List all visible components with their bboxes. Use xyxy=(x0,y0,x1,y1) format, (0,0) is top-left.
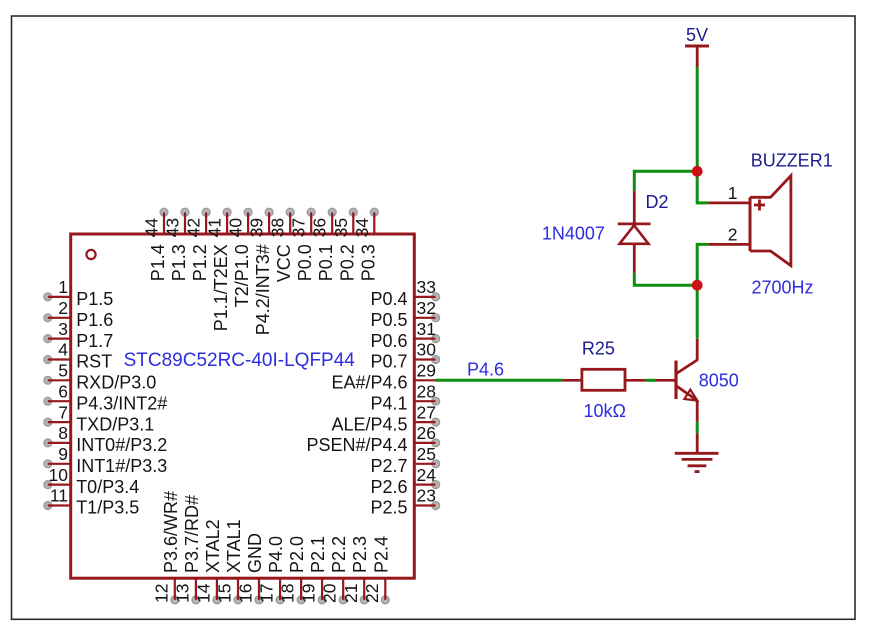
svg-text:7: 7 xyxy=(58,402,68,422)
pin 28 P4.1 xyxy=(370,381,439,413)
svg-text:P2.6: P2.6 xyxy=(370,477,407,497)
svg-text:10kΩ: 10kΩ xyxy=(584,401,626,421)
svg-text:35: 35 xyxy=(331,218,351,237)
svg-text:P1.2: P1.2 xyxy=(190,244,210,281)
svg-text:31: 31 xyxy=(417,319,436,339)
wire junction B to diode anode xyxy=(634,273,697,285)
svg-text:P0.1: P0.1 xyxy=(316,244,336,281)
pin 36 P0.1 xyxy=(310,208,337,281)
svg-text:P2.7: P2.7 xyxy=(370,456,407,476)
wire junction B down to collector xyxy=(696,285,699,339)
svg-text:P0.4: P0.4 xyxy=(370,289,407,309)
svg-text:P0.6: P0.6 xyxy=(370,331,407,351)
svg-text:P2.4: P2.4 xyxy=(371,536,391,573)
svg-text:P2.0: P2.0 xyxy=(287,536,307,573)
svg-text:14: 14 xyxy=(193,583,213,603)
wire buzzer pin 2 to junction B xyxy=(697,244,708,285)
pin 20 P2.2 xyxy=(320,536,350,604)
diode D2 1N4007 xyxy=(618,191,651,273)
svg-text:P2.3: P2.3 xyxy=(350,536,370,573)
svg-text:INT0#/P3.2: INT0#/P3.2 xyxy=(76,435,167,455)
buzzer BUZZER1 body xyxy=(750,176,791,266)
svg-text:22: 22 xyxy=(362,584,382,603)
pin 17 P4.0 xyxy=(257,536,287,604)
svg-text:13: 13 xyxy=(172,584,192,603)
junction node A xyxy=(692,166,703,177)
svg-text:2: 2 xyxy=(728,225,738,245)
pin 19 P2.1 xyxy=(299,536,329,604)
wire junction to diode cathode xyxy=(634,171,697,190)
svg-text:P1.5: P1.5 xyxy=(76,289,113,309)
pin 13 P3.7/RD# xyxy=(172,495,202,604)
svg-text:P2.5: P2.5 xyxy=(370,498,407,518)
svg-text:P0.5: P0.5 xyxy=(370,310,407,330)
pin 44 P1.4 xyxy=(142,208,169,281)
svg-text:P4.6: P4.6 xyxy=(467,360,504,380)
svg-text:20: 20 xyxy=(320,583,340,603)
pin 23 P2.5 xyxy=(370,486,439,518)
svg-text:RST: RST xyxy=(76,352,112,372)
wire emitter to ground xyxy=(696,422,699,433)
buzzer BUZZER1 pin 2 wire xyxy=(708,243,750,246)
svg-text:8: 8 xyxy=(58,423,68,443)
pin 32 P0.5 xyxy=(370,298,439,330)
resistor R25 xyxy=(562,369,645,390)
svg-text:P0.0: P0.0 xyxy=(295,244,315,281)
svg-text:23: 23 xyxy=(417,486,436,506)
svg-text:VCC: VCC xyxy=(274,244,294,282)
svg-text:30: 30 xyxy=(417,340,437,360)
pin 26 PSEN#/P4.4 xyxy=(306,423,439,455)
svg-text:10: 10 xyxy=(49,465,69,485)
svg-text:6: 6 xyxy=(58,381,68,401)
power symbol 5V xyxy=(685,46,709,67)
svg-text:T2/P1.0: T2/P1.0 xyxy=(232,244,252,307)
svg-text:P3.6/WR#: P3.6/WR# xyxy=(161,491,181,573)
pin 43 P1.3 xyxy=(163,208,190,281)
svg-text:P1.3: P1.3 xyxy=(169,244,189,281)
svg-text:R25: R25 xyxy=(582,338,615,358)
svg-text:P4.3/INT2#: P4.3/INT2# xyxy=(76,393,167,413)
svg-text:2: 2 xyxy=(58,298,68,318)
pin 2 P1.6 xyxy=(44,298,113,330)
pin 24 P2.6 xyxy=(370,465,439,497)
pin 31 P0.6 xyxy=(370,319,439,351)
pin 29 EA#/P4.6 xyxy=(331,361,436,393)
pin 35 P0.2 xyxy=(331,208,358,281)
svg-text:21: 21 xyxy=(341,584,361,603)
pin 6 P4.3/INT2# xyxy=(44,381,167,413)
junction node B xyxy=(692,280,703,291)
svg-text:37: 37 xyxy=(289,218,309,237)
pin 33 P0.4 xyxy=(370,277,439,309)
svg-text:P4.2/INT3#: P4.2/INT3# xyxy=(253,244,273,335)
svg-text:D2: D2 xyxy=(646,192,669,212)
svg-text:XTAL1: XTAL1 xyxy=(224,519,244,573)
pin 25 P2.7 xyxy=(370,444,439,476)
svg-text:40: 40 xyxy=(226,218,246,238)
svg-text:16: 16 xyxy=(236,584,256,603)
pin 11 T1/P3.5 xyxy=(44,486,139,518)
pin 12 P3.6/WR# xyxy=(151,491,181,604)
pin 4 RST xyxy=(44,340,112,372)
svg-text:EA#/P4.6: EA#/P4.6 xyxy=(331,373,407,393)
svg-text:27: 27 xyxy=(417,402,436,422)
svg-text:42: 42 xyxy=(184,218,204,237)
pin 30 P0.7 xyxy=(370,340,439,372)
svg-text:P4.0: P4.0 xyxy=(266,536,286,573)
svg-text:29: 29 xyxy=(417,361,436,381)
svg-text:33: 33 xyxy=(417,277,436,297)
svg-text:ALE/P4.5: ALE/P4.5 xyxy=(331,414,407,434)
svg-text:P0.2: P0.2 xyxy=(337,244,357,281)
svg-text:32: 32 xyxy=(417,298,436,318)
pin 34 P0.3 xyxy=(352,208,379,281)
svg-text:38: 38 xyxy=(268,218,288,237)
svg-text:P4.1: P4.1 xyxy=(370,393,407,413)
pin 7 TXD/P3.1 xyxy=(44,402,154,434)
svg-text:5V: 5V xyxy=(686,25,708,45)
svg-text:BUZZER1: BUZZER1 xyxy=(751,151,833,171)
svg-text:9: 9 xyxy=(58,444,68,464)
svg-text:P3.7/RD#: P3.7/RD# xyxy=(182,495,202,573)
svg-text:18: 18 xyxy=(278,584,298,603)
svg-text:P1.4: P1.4 xyxy=(148,244,168,281)
buzzer BUZZER1 pin 1 wire xyxy=(708,201,750,204)
svg-text:24: 24 xyxy=(417,465,437,485)
svg-text:PSEN#/P4.4: PSEN#/P4.4 xyxy=(306,435,407,455)
svg-text:2700Hz: 2700Hz xyxy=(752,278,814,298)
wire net P4.6 from pin 29 to R25 xyxy=(436,379,563,382)
pin 18 P2.0 xyxy=(278,536,308,604)
ground xyxy=(675,433,719,471)
svg-text:17: 17 xyxy=(257,584,277,603)
svg-text:8050: 8050 xyxy=(699,370,739,390)
svg-text:12: 12 xyxy=(151,584,171,603)
svg-text:4: 4 xyxy=(58,340,68,360)
svg-text:26: 26 xyxy=(417,423,436,443)
wire junction to buzzer pin 1 xyxy=(697,171,708,203)
svg-text:INT1#/P3.3: INT1#/P3.3 xyxy=(76,456,167,476)
svg-text:1N4007: 1N4007 xyxy=(542,224,605,244)
svg-text:P0.3: P0.3 xyxy=(358,244,378,281)
svg-text:44: 44 xyxy=(142,218,162,238)
svg-text:3: 3 xyxy=(58,319,68,339)
svg-text:P0.7: P0.7 xyxy=(370,352,407,372)
svg-text:STC89C52RC-40I-LQFP44: STC89C52RC-40I-LQFP44 xyxy=(124,350,356,371)
svg-text:41: 41 xyxy=(205,218,225,237)
svg-text:GND: GND xyxy=(245,533,265,573)
svg-text:5: 5 xyxy=(58,361,68,381)
svg-text:28: 28 xyxy=(417,381,436,401)
pin 8 INT0#/P3.2 xyxy=(44,423,167,455)
IC STC89C52RC-40I-LQFP44 body xyxy=(71,234,415,578)
pin 14 XTAL2 xyxy=(193,519,223,604)
transistor Q1 8050 NPN xyxy=(656,339,698,422)
pin 37 P0.0 xyxy=(289,208,316,281)
svg-text:11: 11 xyxy=(50,486,68,506)
svg-text:RXD/P3.0: RXD/P3.0 xyxy=(76,373,156,393)
pin 3 P1.7 xyxy=(44,319,113,351)
pin 40 T2/P1.0 xyxy=(226,208,253,307)
svg-text:P2.1: P2.1 xyxy=(308,536,328,573)
pin 41 P1.1/T2EX xyxy=(205,208,232,331)
svg-text:43: 43 xyxy=(163,218,183,237)
pin 42 P1.2 xyxy=(184,208,211,281)
svg-text:T0/P3.4: T0/P3.4 xyxy=(76,477,139,497)
pin 5 RXD/P3.0 xyxy=(44,361,156,393)
pin 21 P2.3 xyxy=(341,536,370,604)
svg-text:39: 39 xyxy=(247,218,267,237)
svg-text:T1/P3.5: T1/P3.5 xyxy=(76,498,139,518)
svg-text:P1.1/T2EX: P1.1/T2EX xyxy=(211,244,231,331)
pin 10 T0/P3.4 xyxy=(44,465,139,497)
wire R25 to transistor base xyxy=(645,379,655,382)
svg-text:TXD/P3.1: TXD/P3.1 xyxy=(76,414,154,434)
svg-text:25: 25 xyxy=(417,444,436,464)
svg-text:P2.2: P2.2 xyxy=(329,536,349,573)
pin 39 P4.2/INT3# xyxy=(247,208,274,335)
pin 9 INT1#/P3.3 xyxy=(44,444,167,476)
svg-text:XTAL2: XTAL2 xyxy=(203,519,223,573)
pin 16 GND xyxy=(236,533,266,604)
svg-text:1: 1 xyxy=(728,183,738,203)
svg-text:P1.7: P1.7 xyxy=(76,331,113,351)
svg-text:P1.6: P1.6 xyxy=(76,310,113,330)
wire 5V down to junction xyxy=(696,67,699,171)
svg-text:19: 19 xyxy=(299,584,319,603)
pin 27 ALE/P4.5 xyxy=(331,402,439,434)
pin 1 P1.5 xyxy=(44,277,113,309)
pin 22 P2.4 xyxy=(362,536,392,604)
svg-text:36: 36 xyxy=(310,218,330,237)
svg-text:1: 1 xyxy=(58,277,68,297)
pin 38 VCC xyxy=(268,208,295,282)
pin 15 XTAL1 xyxy=(215,519,245,604)
svg-text:15: 15 xyxy=(215,584,235,603)
svg-text:34: 34 xyxy=(352,218,372,238)
